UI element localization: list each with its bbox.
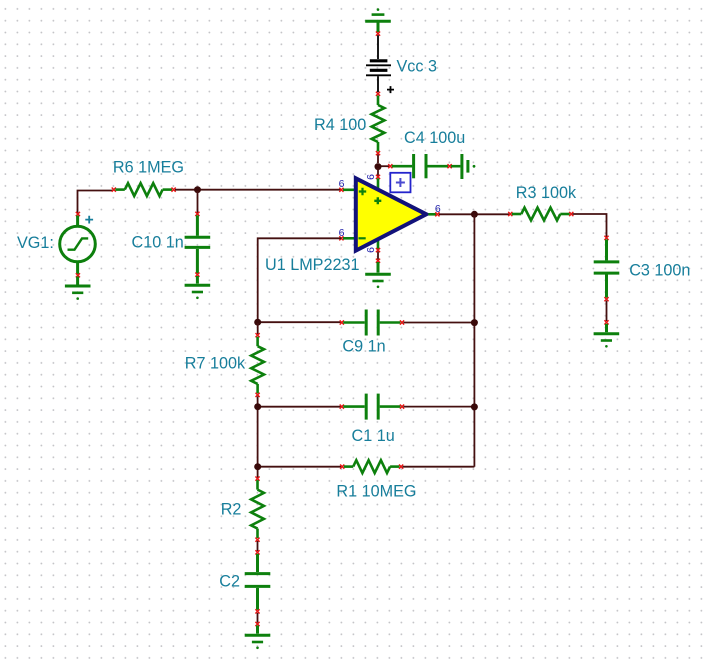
svg-text:C1 1u: C1 1u	[352, 427, 395, 445]
svg-text:6: 6	[435, 203, 441, 215]
svg-text:VG1:: VG1:	[17, 234, 54, 252]
svg-text:R6 1MEG: R6 1MEG	[113, 159, 184, 177]
svg-text:C10 1n: C10 1n	[132, 234, 184, 252]
svg-text:R7 100k: R7 100k	[185, 354, 246, 372]
svg-text:6: 6	[339, 178, 345, 190]
svg-text:C4 100u: C4 100u	[404, 129, 465, 147]
svg-text:6: 6	[339, 227, 345, 239]
svg-text:C3 100n: C3 100n	[629, 262, 690, 280]
svg-text:R3 100k: R3 100k	[516, 184, 577, 202]
svg-text:R4 100: R4 100	[314, 116, 366, 134]
svg-text:C9 1n: C9 1n	[342, 338, 385, 356]
svg-text:Vcc 3: Vcc 3	[397, 58, 438, 76]
svg-text:R2: R2	[221, 501, 242, 519]
svg-text:U1 LMP2231: U1 LMP2231	[265, 256, 360, 274]
svg-text:C2: C2	[219, 572, 240, 590]
svg-text:6: 6	[365, 174, 377, 180]
svg-text:R1 10MEG: R1 10MEG	[336, 483, 416, 501]
svg-text:6: 6	[365, 247, 377, 253]
